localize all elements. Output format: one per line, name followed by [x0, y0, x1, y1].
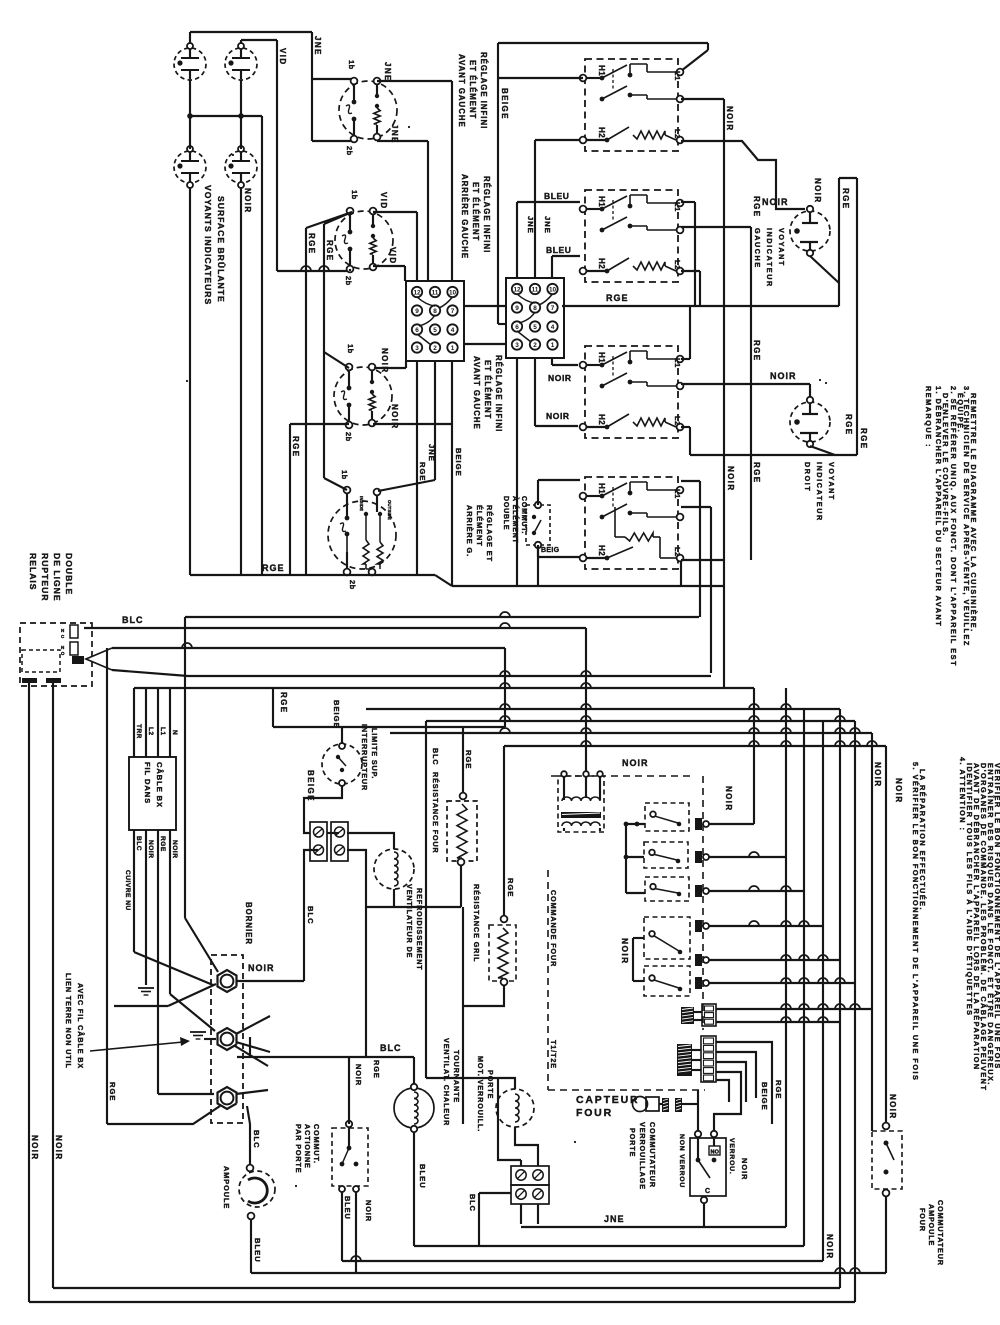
svg-text:BLC: BLC [431, 748, 440, 765]
svg-text:6: 6 [415, 327, 419, 334]
svg-text:H1: H1 [597, 65, 606, 76]
svg-text:5: 5 [533, 324, 537, 331]
svg-text:N: N [171, 730, 178, 735]
svg-text:BEIGE: BEIGE [454, 448, 463, 477]
svg-text:RÉGLAGE INFINI: RÉGLAGE INFINI [494, 355, 503, 432]
svg-text:PAR PORTE: PAR PORTE [294, 1124, 303, 1174]
svg-text:NOIR: NOIR [726, 466, 735, 492]
svg-text:NOIR: NOIR [548, 373, 572, 383]
svg-text:9: 9 [415, 308, 419, 315]
svg-text:NOIR: NOIR [725, 106, 734, 132]
svg-text:NOIR: NOIR [762, 197, 789, 207]
svg-text:INTERRUPTEUR: INTERRUPTEUR [360, 724, 369, 791]
svg-text:NOIR: NOIR [740, 1158, 749, 1180]
svg-text:NOIR: NOIR [622, 758, 649, 768]
svg-text:10: 10 [449, 289, 457, 296]
svg-text:NOIR: NOIR [825, 1234, 834, 1260]
svg-text:NOIR: NOIR [364, 1200, 373, 1222]
svg-text:CÂBLE BX: CÂBLE BX [155, 762, 164, 808]
svg-text:FIL DANS: FIL DANS [143, 762, 152, 804]
svg-text:AVANT GAUCHE: AVANT GAUCHE [472, 356, 481, 430]
svg-text:JNE: JNE [543, 216, 552, 234]
svg-text:NOIR: NOIR [248, 963, 275, 973]
svg-text:COMMUTATEUR: COMMUTATEUR [936, 1200, 945, 1266]
svg-text:RGE: RGE [291, 436, 300, 458]
svg-text:1: 1 [551, 342, 555, 349]
svg-text:RÉGLAGE INFINI: RÉGLAGE INFINI [482, 176, 491, 253]
svg-text:RUPTEUR: RUPTEUR [40, 553, 50, 602]
svg-text:NON VERROU: NON VERROU [678, 1134, 685, 1188]
svg-text:L2: L2 [673, 547, 682, 557]
svg-text:VOYANT: VOYANT [827, 462, 836, 501]
svg-text:BEIGE: BEIGE [332, 700, 341, 729]
svg-text:11: 11 [432, 289, 439, 296]
svg-text:BORNIER: BORNIER [244, 902, 253, 945]
svg-text:6: 6 [515, 324, 519, 331]
svg-text:VOYANTS INDICATEURS: VOYANTS INDICATEURS [203, 185, 213, 305]
svg-text:2b: 2b [348, 580, 357, 590]
svg-text:RGE: RGE [606, 293, 629, 303]
svg-text:DOUBLE: DOUBLE [502, 496, 509, 530]
svg-text:PORTE: PORTE [628, 1128, 637, 1157]
svg-text:BLC: BLC [135, 836, 142, 851]
svg-text:1b: 1b [340, 470, 349, 480]
svg-text:12: 12 [513, 286, 521, 293]
svg-text:ACTIONNE: ACTIONNE [303, 1124, 312, 1169]
svg-text:REMETTRE LE DIAGRAMME AVEC LA: REMETTRE LE DIAGRAMME AVEC LA CUISINIÈRE… [969, 393, 978, 633]
svg-text:AMPOULE: AMPOULE [222, 1166, 231, 1209]
svg-text:CAPTEUR: CAPTEUR [576, 1094, 639, 1106]
svg-text:BLC: BLC [306, 906, 315, 925]
svg-text:RGE: RGE [325, 240, 334, 262]
svg-text:COMMANDE FOUR: COMMANDE FOUR [549, 890, 558, 967]
svg-text:1b: 1b [346, 344, 355, 354]
svg-text:NO: NO [711, 1150, 720, 1156]
svg-text:RGE: RGE [752, 462, 761, 484]
svg-text:RÉSISTANCE GRIL: RÉSISTANCE GRIL [472, 884, 481, 962]
svg-text:BLEU: BLEU [418, 1164, 427, 1189]
svg-text:7: 7 [451, 308, 455, 315]
svg-text:7: 7 [551, 305, 555, 312]
svg-text:NOIR: NOIR [354, 1064, 363, 1086]
svg-text:C: C [705, 1188, 710, 1195]
svg-text:2b: 2b [344, 432, 353, 442]
svg-text:RGE: RGE [844, 414, 853, 436]
svg-text:NOIR: NOIR [813, 178, 822, 204]
svg-text:VÉRIFIER LE BON FONCTIONNEMENT: VÉRIFIER LE BON FONCTIONNEMENT DE L'APPA… [993, 763, 1000, 1070]
svg-text:11: 11 [532, 286, 539, 293]
svg-text:H2: H2 [597, 414, 606, 425]
svg-text:VID: VID [388, 247, 397, 265]
svg-text:NOIR: NOIR [620, 938, 630, 965]
svg-text:BEIGE: BEIGE [760, 1082, 769, 1111]
svg-text:NOIR: NOIR [171, 840, 178, 858]
svg-text:RGE: RGE [279, 692, 288, 714]
svg-text:H1: H1 [597, 196, 606, 207]
svg-text:BLC: BLC [252, 1130, 261, 1149]
svg-text:RGE: RGE [774, 1080, 783, 1099]
svg-text:NOIR: NOIR [147, 840, 154, 858]
svg-text:RGE: RGE [262, 563, 285, 573]
svg-text:RGE: RGE [372, 1060, 381, 1079]
svg-text:1: 1 [451, 345, 455, 352]
svg-text:1b: 1b [347, 60, 356, 70]
svg-text:N: N [61, 628, 64, 633]
svg-text:BLC: BLC [380, 1043, 402, 1053]
svg-text:NOIR: NOIR [390, 404, 399, 430]
svg-text:COMMUTATEUR: COMMUTATEUR [648, 1122, 657, 1188]
svg-text:VERROU.: VERROU. [728, 1138, 735, 1175]
svg-text:RGE: RGE [752, 196, 761, 218]
svg-text:INSIDE: INSIDE [359, 496, 364, 511]
svg-text:VENTILAT. CHALEUR: VENTILAT. CHALEUR [442, 1038, 451, 1126]
svg-text:ARRIÈRE G.: ARRIÈRE G. [465, 505, 474, 557]
svg-text:RGE: RGE [859, 428, 868, 450]
svg-text:BLC: BLC [122, 615, 144, 625]
svg-text:NOIR: NOIR [243, 188, 252, 214]
svg-text:ARRIÈRE GAUCHE: ARRIÈRE GAUCHE [460, 174, 469, 259]
svg-text:10: 10 [549, 286, 557, 293]
svg-text:RGE: RGE [307, 233, 316, 255]
svg-text:MOT. VERROUILL.: MOT. VERROUILL. [476, 1056, 485, 1132]
svg-text:À ÉLÉMENT: À ÉLÉMENT [511, 496, 520, 544]
svg-text:INDICATEUR: INDICATEUR [765, 228, 774, 288]
svg-text:BLEU: BLEU [546, 245, 572, 255]
svg-text:4: 4 [551, 324, 555, 331]
svg-text:FOUR: FOUR [576, 1107, 613, 1119]
svg-text:O: O [61, 651, 65, 656]
svg-text:3: 3 [415, 345, 419, 352]
svg-text:NOIR: NOIR [54, 1135, 63, 1161]
svg-text:NOIR: NOIR [873, 762, 882, 788]
svg-text:NOIR: NOIR [724, 786, 733, 812]
svg-text:TRR: TRR [135, 724, 142, 739]
svg-text:T1/T2E: T1/T2E [549, 1040, 558, 1069]
svg-text:BEIGE: BEIGE [500, 88, 509, 120]
svg-text:REMARQUE :: REMARQUE : [924, 386, 933, 448]
svg-text:RÉGLAGE ET: RÉGLAGE ET [485, 505, 494, 562]
svg-text:RGE: RGE [159, 836, 166, 852]
svg-text:BLEU: BLEU [544, 191, 570, 201]
svg-text:CUIVRE NU: CUIVRE NU [124, 870, 131, 911]
svg-text:RELAIS: RELAIS [28, 553, 38, 591]
svg-text:H1: H1 [597, 483, 606, 494]
svg-text:AVEC FIL CÂBLE BX: AVEC FIL CÂBLE BX [76, 983, 85, 1069]
svg-text:OUTSIDE: OUTSIDE [387, 500, 392, 520]
svg-text:AVANT GAUCHE: AVANT GAUCHE [457, 54, 466, 128]
svg-text:BEIG: BEIG [541, 547, 560, 554]
svg-text:RGE: RGE [841, 188, 850, 210]
svg-text:JNE: JNE [604, 1214, 625, 1224]
svg-text:VID: VID [278, 48, 287, 66]
svg-text:NOIR: NOIR [380, 348, 389, 374]
svg-text:RGE: RGE [752, 340, 761, 362]
svg-text:L2: L2 [673, 416, 682, 426]
svg-text:H2: H2 [597, 258, 606, 269]
svg-text:NOIR: NOIR [546, 411, 570, 421]
svg-text:SURFACE BRÛLANTE: SURFACE BRÛLANTE [216, 196, 227, 303]
svg-text:LA RÉPARATION EFFECTUÉE.: LA RÉPARATION EFFECTUÉE. [918, 769, 927, 911]
svg-text:LIEN TERRE NON UTIL: LIEN TERRE NON UTIL [64, 973, 73, 1069]
svg-text:VERROUILLAGE: VERROUILLAGE [638, 1122, 647, 1190]
svg-text:ET ÉLÉMENT: ET ÉLÉMENT [471, 182, 480, 241]
svg-text:8: 8 [433, 308, 437, 315]
svg-text:JNE: JNE [526, 216, 535, 234]
svg-text:FOUR: FOUR [918, 1208, 927, 1232]
svg-text:VOYANT: VOYANT [777, 228, 786, 267]
svg-text:2b: 2b [344, 276, 353, 286]
svg-text:ÉLÉMENT: ÉLÉMENT [475, 505, 484, 547]
svg-text:REFROIDISSEMENT: REFROIDISSEMENT [415, 888, 424, 971]
svg-text:H1: H1 [597, 352, 606, 363]
svg-text:JNE: JNE [383, 62, 392, 82]
svg-text:12: 12 [413, 289, 421, 296]
svg-text:NOIR: NOIR [30, 1135, 39, 1161]
svg-text:BLEU: BLEU [253, 1238, 262, 1263]
svg-text:5: 5 [433, 327, 437, 334]
svg-text:DROIT: DROIT [803, 462, 812, 492]
svg-text:NOIR: NOIR [770, 371, 797, 381]
svg-text:TOURNANTE: TOURNANTE [452, 1050, 461, 1103]
svg-text:VENTILATEUR DE: VENTILATEUR DE [405, 884, 414, 958]
svg-text:INDICATEUR: INDICATEUR [815, 462, 824, 522]
svg-text:RGE: RGE [418, 462, 427, 481]
svg-text:JNE: JNE [427, 444, 436, 462]
svg-text:L2: L2 [673, 129, 682, 139]
svg-text:L2: L2 [673, 260, 682, 270]
svg-text:D'ENLEVER LE COUVRE-FILS.: D'ENLEVER LE COUVRE-FILS. [941, 393, 950, 537]
svg-text:COMMUT.: COMMUT. [312, 1124, 321, 1164]
svg-text:DOUBLE: DOUBLE [64, 553, 74, 595]
svg-text:8: 8 [533, 305, 537, 312]
svg-text:H2: H2 [597, 545, 606, 556]
svg-text:NOIR: NOIR [894, 778, 903, 804]
svg-text:BLEU: BLEU [343, 1196, 352, 1220]
svg-text:N: N [61, 645, 64, 650]
svg-text:GAUCHE: GAUCHE [753, 228, 762, 269]
svg-text:2: 2 [533, 342, 537, 349]
svg-text:2: 2 [433, 345, 437, 352]
svg-text:DE LIGNE: DE LIGNE [52, 553, 62, 602]
svg-text:AMPOULE: AMPOULE [927, 1204, 936, 1246]
svg-text:PORTE: PORTE [486, 1070, 495, 1099]
svg-text:H2: H2 [597, 127, 606, 138]
svg-text:BLC: BLC [468, 1194, 477, 1212]
svg-text:2b: 2b [345, 146, 354, 156]
svg-text:COMMUT.: COMMUT. [520, 496, 527, 534]
svg-text:JNE: JNE [313, 36, 322, 56]
svg-text:3: 3 [515, 342, 519, 349]
svg-text:LIMITE SUP.: LIMITE SUP. [370, 728, 379, 779]
svg-text:ET ÉLÉMENT: ET ÉLÉMENT [468, 60, 477, 119]
svg-text:RGE: RGE [464, 750, 473, 769]
svg-text:ET ÉLÉMENT: ET ÉLÉMENT [483, 360, 492, 419]
svg-text:RÉGLAGE INFINI: RÉGLAGE INFINI [479, 52, 488, 129]
svg-text:NOIR: NOIR [888, 1094, 897, 1120]
svg-text:1b: 1b [350, 190, 359, 200]
svg-text:9: 9 [515, 305, 519, 312]
svg-text:L1: L1 [159, 727, 166, 736]
svg-text:RGE: RGE [108, 1082, 117, 1101]
svg-text:4: 4 [451, 327, 455, 334]
svg-text:RGE: RGE [506, 878, 515, 897]
svg-text:RÉSISTANCE FOUR: RÉSISTANCE FOUR [431, 772, 440, 854]
svg-text:L2: L2 [147, 727, 154, 736]
svg-text:VID: VID [379, 192, 388, 210]
